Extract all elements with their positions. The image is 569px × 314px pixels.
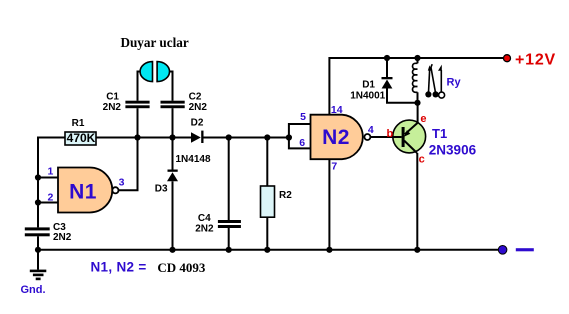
- wire: pin 7 down to rail: [328, 159, 330, 250]
- wire: emitter riser: [417, 103, 419, 123]
- wire: N2 input tie (pins 5-6): [289, 124, 311, 148]
- svg-text:5: 5: [300, 111, 306, 123]
- svg-text:R2: R2: [279, 190, 292, 201]
- svg-text:N1: N1: [69, 180, 97, 203]
- svg-text:2N2: 2N2: [189, 102, 208, 113]
- svg-text:Ry: Ry: [447, 77, 462, 89]
- N1 output bubble: [112, 187, 118, 193]
- svg-text:D3: D3: [155, 184, 168, 195]
- capacitor C2: [161, 92, 208, 114]
- node: collector/rail junction: [414, 247, 420, 253]
- node: R2/rail junction: [264, 247, 270, 253]
- node: D3/rail junction: [169, 247, 175, 253]
- node: pin 1 junction: [35, 174, 41, 180]
- node D: R2 top junction: [264, 134, 270, 140]
- svg-text:Duyar uclar: Duyar uclar: [120, 35, 188, 50]
- N2 output bubble: [364, 134, 370, 140]
- relay coil Ry: [413, 58, 418, 103]
- svg-text:1: 1: [47, 166, 53, 178]
- wire: C2 to node B: [172, 108, 174, 137]
- node C: C4 top junction: [226, 134, 232, 140]
- svg-text:CD 4093: CD 4093: [157, 260, 206, 275]
- wire: R1 left lead and left vertical rail down to C3: [38, 138, 65, 228]
- wire: node C to node D: [229, 137, 268, 139]
- wire: collector down to rail: [416, 153, 418, 250]
- node: pin 7 rail junction: [326, 247, 332, 253]
- svg-text:e: e: [420, 113, 426, 125]
- wire: node A to node B: [138, 137, 173, 139]
- wire: left pad down to C1: [138, 72, 141, 101]
- svg-text:2N3906: 2N3906: [429, 142, 477, 157]
- relay contacts: [425, 64, 444, 98]
- svg-text:1N4148: 1N4148: [176, 154, 211, 165]
- capacitor C1: [103, 92, 150, 114]
- wire: pin 2: [38, 202, 58, 204]
- NAND gate N2: [311, 115, 363, 160]
- svg-text:C1: C1: [106, 92, 119, 103]
- wire: N1 output up to node A: [119, 138, 138, 191]
- diode D1: [350, 58, 417, 103]
- svg-text:7: 7: [331, 161, 337, 173]
- touch contact right: [157, 62, 169, 82]
- NAND gate N1: [58, 168, 112, 213]
- resistor R2: [261, 138, 293, 250]
- terminal: +12V red dot: [504, 55, 511, 62]
- svg-text:R1: R1: [72, 118, 85, 129]
- svg-text:6: 6: [299, 137, 305, 149]
- svg-text:+12V: +12V: [515, 51, 556, 68]
- node: D1/top rail junction: [384, 55, 390, 61]
- capacitor C4: [195, 138, 241, 250]
- svg-text:4: 4: [368, 124, 374, 136]
- resistor R1: [65, 118, 96, 145]
- touch contact left (Duyar uclar): [140, 62, 152, 82]
- svg-text:Gnd.: Gnd.: [21, 284, 46, 296]
- svg-text:2N2: 2N2: [53, 232, 72, 243]
- svg-text:14: 14: [331, 104, 343, 116]
- node A: R1/C1/N1-out junction: [134, 134, 140, 140]
- svg-text:470K: 470K: [67, 131, 96, 145]
- svg-text:C2: C2: [189, 92, 202, 103]
- label N1, N2 = CD 4093: [91, 259, 206, 275]
- node: coil/top rail junction: [414, 55, 420, 61]
- wire: right pad down to C2: [169, 72, 172, 101]
- svg-text:D1: D1: [362, 80, 375, 91]
- wire: top +12V rail with pin 14 riser: [329, 58, 503, 115]
- svg-text:1N4001: 1N4001: [350, 90, 385, 101]
- svg-text:N2: N2: [322, 126, 350, 149]
- node: C3/rail junction: [35, 247, 41, 253]
- svg-text:3: 3: [119, 177, 125, 189]
- transistor T1: [370, 120, 425, 153]
- terminal: negative blue dot: [498, 246, 507, 255]
- wire: R1 to node A: [96, 137, 138, 139]
- node B: C2/D3 junction: [169, 134, 175, 140]
- capacitor C3: [25, 222, 72, 243]
- svg-text:2N2: 2N2: [103, 102, 122, 113]
- svg-text:c: c: [419, 153, 425, 165]
- svg-text:D2: D2: [191, 118, 204, 129]
- node: coil/D1/emitter junction: [414, 100, 420, 106]
- svg-text:N1, N2 =: N1, N2 =: [91, 259, 147, 274]
- svg-text:2N2: 2N2: [195, 223, 214, 234]
- wire: D2 cathode to node C: [204, 137, 229, 139]
- svg-text:b: b: [387, 128, 394, 140]
- diode D3: [155, 138, 178, 250]
- wire: node D to N2 input tie: [267, 137, 289, 139]
- svg-text:T1: T1: [432, 126, 447, 141]
- wire: pin 1: [38, 177, 58, 179]
- wire: bottom ground rail: [38, 249, 498, 251]
- wire: C1 to node A: [137, 108, 139, 137]
- diode D2: [191, 118, 204, 143]
- node E: input tie junction: [286, 134, 292, 140]
- wire: C3 to bottom rail: [37, 236, 39, 250]
- label: negative dash: [516, 248, 534, 251]
- node: pin 2 junction: [35, 199, 41, 205]
- node: C4/rail junction: [226, 247, 232, 253]
- wire: node B to D2 anode: [173, 137, 192, 139]
- ground: [21, 250, 47, 296]
- svg-text:C4: C4: [198, 213, 211, 224]
